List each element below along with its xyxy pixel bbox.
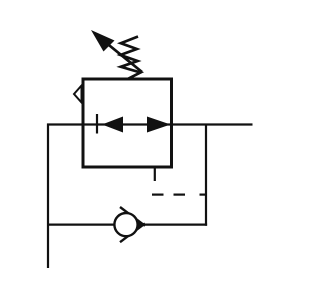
check valve ball (circle)	[114, 213, 137, 236]
wire: main inlet line left segment	[47, 123, 82, 125]
check valve seat upper line	[120, 207, 145, 226]
check valve seat lower line	[120, 223, 145, 242]
pilot line dash 3	[200, 194, 207, 196]
wire: horizontal from check valve to right branch	[143, 224, 207, 226]
wire: main outlet line right segment	[172, 123, 253, 125]
wire: left vertical branch	[47, 124, 49, 269]
relief vent triangle on left edge	[74, 86, 82, 103]
pilot line solid stub below body	[154, 169, 156, 182]
wire: bottom horizontal to check valve	[47, 224, 115, 226]
left flow arrowhead inside body	[102, 117, 123, 133]
adjustment arrow head	[91, 30, 115, 52]
pilot line dash 2	[174, 194, 186, 196]
wire: right vertical branch	[205, 125, 207, 226]
adjustment arrow shaft through spring	[96, 35, 142, 73]
valve seat tick inside body	[96, 114, 98, 134]
pilot line dash 1	[152, 194, 164, 196]
spring (zigzag) on top of body	[121, 37, 141, 79]
regulator body (square)	[83, 79, 172, 167]
right flow arrowhead inside body	[147, 117, 171, 133]
wire: line through regulator body	[82, 123, 172, 125]
check valve seat filled triangle	[138, 221, 146, 229]
